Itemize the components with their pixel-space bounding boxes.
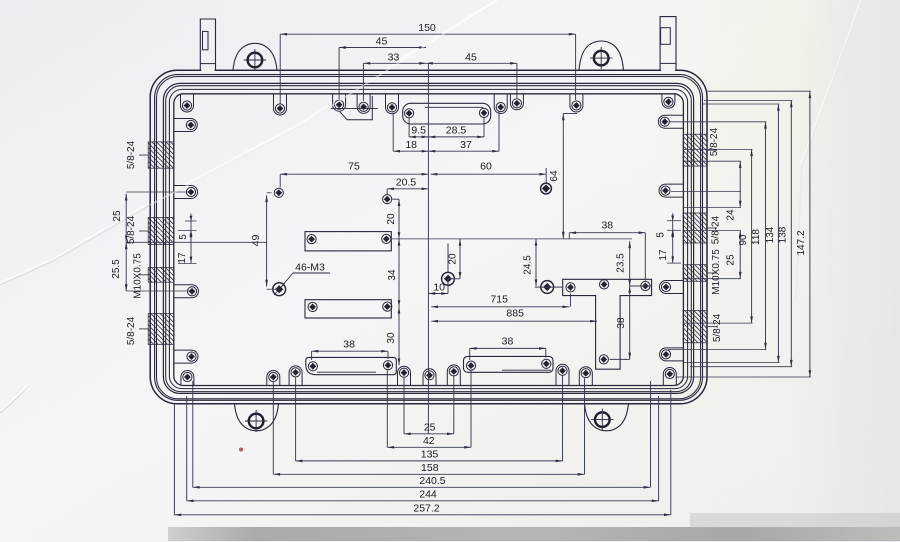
bottom wall screw boss B4 (398, 366, 411, 385)
slot A (upper left rectangle cutout) (305, 232, 391, 251)
dims 20/34/30 vertical chain (398, 199, 400, 239)
top wall screw boss T2 (274, 94, 287, 115)
top wall screw boss T8 (570, 94, 583, 112)
bottom wall screw boss B8 (579, 367, 592, 385)
dim 135 bottom (296, 460, 563, 462)
dim 20 vertical (centre hole) (459, 239, 461, 279)
dim 10 (428, 293, 448, 295)
top wall screw boss T5 (386, 94, 399, 114)
crease highlight over drawing (150, 0, 497, 205)
top-right hinge tab (660, 17, 676, 71)
left wall screw boss L3 (174, 285, 199, 298)
bottom wall screw boss B2 (267, 371, 280, 386)
dim 38 centre slot (470, 347, 546, 349)
dims 33 / 45 (363, 62, 426, 64)
page corner fold left (0, 384, 30, 413)
enclosure outline: lid seam 1 (155, 75, 703, 401)
top-left hinge tab (200, 19, 215, 70)
dim 147.2 right (809, 91, 811, 377)
mounting ear top-left (233, 43, 277, 70)
dim 38 vertical (T slot leg) (629, 286, 631, 359)
top wall screw boss T7 (510, 94, 523, 110)
small hole 75/60 row left (274, 188, 283, 197)
top wall screw boss T3 (333, 94, 346, 111)
right datum extension lines (706, 90, 811, 92)
enclosure outline: inner wall (174, 94, 684, 386)
slot C (lower left cutout with radius) (306, 357, 397, 374)
dim 20.5 (387, 188, 428, 190)
right dims 24 / 25 (739, 161, 741, 207)
enclosure outline: gasket groove outer (163, 83, 693, 393)
centre extension line (427, 63, 429, 434)
top wall screw boss T9 (662, 94, 675, 108)
slot B (middle left rectangle cutout) (305, 300, 391, 318)
hole 46-M3 (273, 283, 286, 296)
hole with 64 dim (541, 183, 552, 194)
top wall screw boss T6 (494, 94, 507, 113)
right conduit knockout K6 (hatched) (683, 213, 707, 243)
dim 45 upper-left (339, 47, 426, 49)
fold crease upper left (383, 0, 497, 70)
dim 38 above T slot (569, 232, 645, 234)
left conduit knockout K2 (hatched) (148, 218, 174, 245)
left dims 25 / 25.5 (125, 194, 127, 243)
right conduit knockout K8 (hatched) (683, 311, 707, 343)
left wall screw boss L4 (174, 350, 199, 363)
enclosure outline: flange line (169, 89, 687, 388)
outer line breaks at tabs (201, 69, 214, 72)
right wall screw boss R3 (660, 281, 684, 294)
enclosure outline: lid seam 2 (157, 77, 701, 399)
hole with 10/20 dims (442, 272, 455, 285)
right wall screw boss R2 (659, 184, 684, 197)
dims 18 / 37 (393, 150, 428, 152)
slot D (top connector cutout) (403, 103, 491, 124)
top wall screw boss T1 (181, 94, 194, 112)
dim 90 right (751, 149, 753, 323)
mounting ear bottom-right (585, 404, 629, 431)
dim 42 bottom (387, 446, 471, 448)
left dims 5 / 17 (185, 220, 197, 222)
dim 64 vertical (562, 114, 564, 239)
dim 138 right (790, 100, 792, 366)
red speck (239, 448, 243, 452)
dim 23.5 vertical (629, 241, 631, 286)
46-M3 leader (282, 273, 294, 287)
dims 71.5 / 88.5 (431, 306, 569, 308)
left conduit knockout K1 (hatched) (148, 142, 174, 168)
bottom wall screw boss B3 (289, 366, 302, 385)
dim 49 vertical (266, 195, 268, 286)
dim 24.5 vertical (535, 239, 537, 286)
small hole 20.5 (383, 195, 392, 204)
right wall screw boss R4 (660, 348, 684, 361)
bottom wall screw boss B7 (556, 364, 569, 385)
dims 75 / 60 (280, 173, 428, 175)
left wall screw boss L1 (174, 119, 198, 132)
right wall screw boss R1 (658, 115, 683, 128)
T-shaped slot (563, 279, 652, 369)
hole row extension y=238.9 (391, 238, 632, 240)
left conduit knockout K3 (hatched) (148, 268, 174, 283)
dim 134 right (777, 104, 779, 363)
left wall screw boss L2 (174, 186, 198, 199)
bottom scanner band (168, 527, 900, 541)
hole left of T slot (541, 281, 554, 294)
enclosure outline: outer shell (150, 70, 707, 404)
right dims 5 / 17 (667, 220, 681, 222)
bottom wall screw boss B6 (447, 365, 460, 385)
dim 158 bottom (273, 473, 584, 475)
dim 25 bottom (404, 433, 454, 435)
dim 118 right (765, 122, 767, 350)
mounting ear top-right (579, 41, 624, 70)
dim 150 top (280, 33, 575, 35)
right conduit knockout K7 (hatched) (683, 265, 707, 282)
dim 38 left slot (312, 350, 388, 352)
bottom wall screw boss B5 (423, 369, 436, 385)
mounting ear bottom-left (235, 404, 279, 431)
bottom wall screw boss B9 (663, 368, 676, 386)
enclosure outline: gasket groove inner (166, 86, 692, 392)
slot E (bottom centre cutout) (464, 356, 554, 372)
dim 244 bottom (187, 500, 659, 502)
bottom extension lines (272, 382, 274, 474)
bottom wall screw boss B1 (181, 371, 194, 386)
top wall screw boss T4 (357, 94, 370, 113)
dims 9.5 / 28.5 (409, 136, 428, 138)
right conduit knockout K5 (hatched) (683, 134, 707, 166)
dim 257.2 bottom (174, 514, 670, 516)
dim 240.5 bottom (193, 486, 651, 488)
clamp pocket under top bosses (331, 107, 378, 109)
left conduit knockout K4 (hatched) (148, 313, 174, 344)
